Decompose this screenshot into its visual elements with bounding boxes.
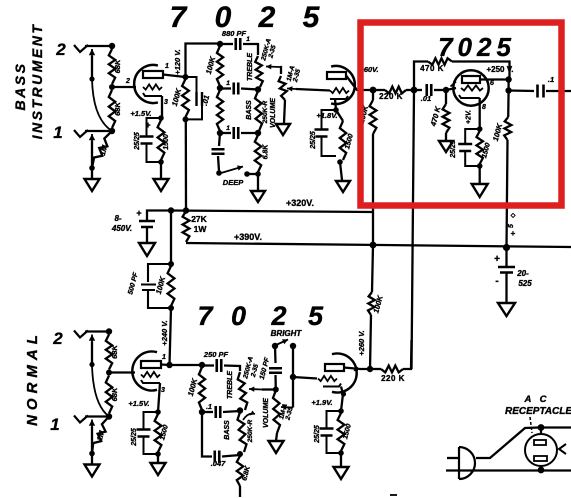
node sleeve N	[89, 362, 94, 367]
label 2-35 treble bass	[267, 44, 277, 60]
label 100K mid	[154, 275, 167, 295]
svg-text:0: 0	[215, 1, 232, 34]
capacitor 150PF	[269, 368, 282, 373]
svg-text:2: 2	[125, 78, 130, 85]
svg-text:TREBLE: TREBLE	[247, 53, 254, 81]
wire 450V cap top	[147, 211, 171, 222]
svg-text:BASS: BASS	[246, 100, 253, 120]
svg-text:8-: 8-	[114, 214, 121, 223]
svg-text:25/25: 25/25	[314, 425, 321, 444]
capacitor 25/25 V3	[458, 129, 480, 166]
wire vol wiper normal	[292, 377, 294, 408]
plate V1a	[143, 71, 163, 78]
node treble bottom bass	[255, 86, 261, 92]
node 500pf bottom	[168, 305, 174, 311]
node cathode V2b mid	[341, 391, 346, 396]
resistor 470K grid	[443, 104, 450, 133]
label +120V	[173, 49, 182, 74]
node bus B	[183, 207, 189, 213]
potentiometer BASS bass	[255, 91, 262, 131]
minus 20-525	[495, 276, 498, 287]
wire jack N1 down	[91, 427, 93, 454]
resistor 68K Bb	[109, 90, 115, 128]
label title top 5	[303, 1, 321, 34]
grid V2a	[141, 372, 160, 377]
wire sleeve B	[91, 56, 93, 79]
label 250K-A bass	[260, 38, 273, 63]
node jack B1	[109, 128, 115, 134]
cathode V2a	[141, 380, 160, 383]
wire cathode gnd V1b	[340, 162, 342, 180]
label +1.8V V1b	[316, 111, 337, 120]
potentiometer TREBLE normal	[238, 372, 248, 410]
node 390 right	[503, 244, 510, 251]
resistor 100K stack bass lower	[217, 90, 223, 131]
svg-text:7025: 7025	[438, 32, 516, 62]
svg-text:BASS: BASS	[12, 62, 28, 111]
svg-text:-: -	[495, 276, 498, 287]
wire mid column upper	[170, 211, 172, 265]
node cathode bottom V1b	[337, 159, 343, 165]
wire jack B1 down	[91, 141, 93, 168]
pin 2 V1a	[125, 78, 130, 85]
label .1 output	[548, 75, 554, 84]
jack N2	[74, 331, 88, 338]
label title bottom 2	[270, 301, 286, 331]
svg-text:6.8K: 6.8K	[263, 144, 270, 160]
label INSTRUMENT	[29, 23, 45, 140]
wire 6.8K gnd	[257, 174, 259, 190]
capacitor .01 bass	[197, 92, 203, 106]
wiper TREBLE bass	[266, 64, 280, 69]
svg-text:+: +	[145, 120, 150, 130]
wire receptacle top right	[541, 426, 571, 428]
wire volume wiper out	[296, 89, 330, 91]
node grid mix	[411, 87, 418, 94]
label .01 bass	[200, 94, 211, 106]
wire plate V1a	[163, 75, 185, 78]
wire grid bass V1	[112, 86, 136, 88]
svg-text:+1.9V.: +1.9V.	[311, 398, 332, 407]
svg-text:+: +	[494, 254, 500, 265]
ground cathode V2b	[334, 467, 349, 479]
label 250 PF	[203, 350, 229, 359]
wire 220K normal lead	[370, 368, 381, 370]
wire grid mix to cap	[414, 89, 422, 91]
pin 6 V3	[490, 80, 494, 87]
node treble bottom normal	[237, 407, 243, 413]
node cathode bottom V2b	[338, 450, 344, 456]
label 68K Ba	[113, 59, 122, 73]
wire jack B2 to node	[85, 45, 112, 47]
ground tone bass	[251, 191, 265, 202]
svg-text:1: 1	[226, 80, 230, 87]
wire 150pf down	[274, 375, 277, 390]
label 450V	[111, 224, 132, 233]
capacitor 25/25 V2b	[320, 411, 342, 453]
grid V1a	[143, 84, 162, 89]
label NORMAL	[24, 330, 41, 426]
capacitor 25/25 V1a	[140, 118, 162, 162]
svg-text:NORMAL: NORMAL	[24, 330, 41, 426]
node cathode V3	[477, 126, 483, 132]
resistor 100K stack normal	[199, 367, 205, 410]
svg-text:1W: 1W	[194, 224, 208, 234]
plus 450V cap	[136, 208, 141, 218]
svg-text:◇: ◇	[510, 212, 516, 219]
node 500pf top	[168, 261, 174, 267]
svg-text:25/25: 25/25	[310, 131, 317, 150]
resistor 100K mid	[168, 266, 175, 306]
wire 470K gnd	[445, 133, 447, 141]
wire to ground B	[91, 168, 93, 179]
wire ac diagonal	[476, 428, 538, 459]
resistor 1M B	[92, 131, 112, 168]
wire 470K grid lead	[445, 90, 447, 104]
wire jack N1 to node	[85, 415, 109, 417]
svg-text:+390V.: +390V.	[234, 232, 262, 242]
capacitor treble-bass bass	[234, 83, 239, 95]
wire col below	[372, 245, 373, 292]
triode V2a (7025 normal)	[132, 352, 157, 391]
wire .01 right	[186, 106, 203, 119]
label 1500 V1b	[344, 133, 355, 150]
wire treble wiper to vol	[280, 67, 281, 74]
jack N1 tip contact	[89, 420, 95, 431]
node grid V2b	[290, 374, 296, 380]
label 220 K normal	[381, 374, 405, 383]
resistor 100K col upper	[370, 100, 377, 134]
label 6.8K bass	[263, 144, 270, 160]
svg-text:.1: .1	[206, 404, 212, 411]
label 100K stack bass	[204, 55, 217, 75]
resistor 100K plate V1a	[182, 79, 189, 117]
cathode V1b	[330, 96, 348, 99]
switch BRIGHT	[276, 339, 288, 345]
wire cathode V1b down	[335, 99, 336, 110]
svg-text:+1.8V.: +1.8V.	[316, 111, 337, 120]
node cathode V1a	[158, 115, 164, 121]
svg-text:INSTRUMENT: INSTRUMENT	[29, 23, 45, 140]
label 1M-A bass	[286, 65, 297, 82]
potentiometer BASS normal	[238, 412, 247, 452]
node bass pot bottom	[255, 130, 261, 136]
wire +320 bus	[171, 211, 373, 213]
svg-text:7: 7	[197, 301, 214, 331]
ground cathode V2a	[151, 463, 166, 475]
svg-text:220 K: 220 K	[379, 92, 403, 101]
svg-text:27K: 27K	[191, 214, 207, 224]
wiper TREBLE normal	[249, 387, 262, 392]
label A C	[523, 394, 549, 405]
wire deep drop	[219, 133, 220, 146]
node sleeve B	[89, 76, 94, 81]
resistor 220K bass	[385, 87, 406, 94]
label TREBLE normal	[227, 371, 234, 399]
resistor 68K Na	[106, 335, 112, 370]
label +250V	[486, 65, 513, 74]
node bright left	[272, 343, 278, 349]
node output	[505, 87, 511, 93]
node below plate V1a	[183, 116, 189, 122]
node deep sw left	[216, 170, 222, 176]
capacitor 25/25 V2a	[137, 412, 159, 454]
jack B1	[74, 130, 88, 137]
svg-text:2: 2	[52, 329, 63, 348]
label 100K col lower	[371, 294, 384, 314]
label .047	[211, 459, 226, 468]
plate V3	[462, 76, 480, 83]
plug	[459, 447, 475, 479]
svg-text:.1: .1	[548, 75, 554, 84]
wire V3 column down	[507, 140, 508, 248]
wire sleeve N	[91, 342, 93, 365]
node 1M bottom B	[89, 165, 95, 171]
node jack B2	[109, 43, 115, 49]
jack N2 tip contact	[89, 335, 95, 346]
svg-text:+: +	[511, 229, 516, 238]
svg-text:.047: .047	[211, 459, 226, 468]
svg-text:0: 0	[231, 301, 246, 331]
resistor 6.8K bass	[255, 135, 261, 172]
node jack N1	[106, 413, 112, 419]
pin 1 tick V3	[451, 82, 457, 87]
wire sleeve curve N	[92, 365, 109, 417]
label jack N2	[52, 329, 63, 348]
label small marks2	[508, 224, 515, 228]
wire output right	[546, 90, 571, 92]
label 250K-R bass	[262, 100, 269, 124]
plus 25/25 V1a	[145, 120, 150, 130]
label 1M-A normal	[278, 403, 289, 420]
svg-text:+2V.: +2V.	[466, 110, 473, 124]
pin 3 V2a	[161, 387, 165, 394]
node bright right	[290, 343, 296, 349]
label .01 red	[421, 94, 431, 103]
label 25/25 V2a	[131, 428, 138, 447]
wire plug prong top	[447, 457, 459, 459]
svg-text:1: 1	[53, 123, 62, 142]
resistor 68K Ba	[109, 49, 115, 84]
svg-text:1: 1	[226, 125, 230, 132]
label small marks3	[510, 212, 516, 219]
wire 1500 V1b lead	[336, 110, 343, 121]
label 1500 V2b	[342, 423, 353, 440]
label +2V V3	[466, 110, 473, 124]
node deep sw right	[244, 171, 250, 177]
label 68K Na	[110, 345, 119, 359]
triode V1a (7025 bass)	[134, 65, 158, 103]
svg-text:68K: 68K	[113, 102, 122, 116]
label 1M N	[95, 429, 107, 442]
pin mark mid cap bass	[226, 80, 230, 87]
label 27K	[191, 214, 207, 224]
resistor 100K plate V3	[504, 117, 511, 140]
wiper VOLUME normal	[281, 405, 293, 410]
svg-text:2: 2	[55, 40, 66, 59]
label +60V	[359, 65, 378, 74]
wire plate to output node	[507, 80, 509, 91]
label +260V normal	[357, 330, 366, 355]
plate V2b	[325, 364, 344, 371]
wire grid V3	[446, 88, 456, 90]
ground input N	[85, 465, 100, 477]
receptacle circle	[525, 434, 557, 466]
wire mid cap left N	[202, 411, 213, 413]
label 2-35 treble normal	[250, 363, 260, 379]
wire bright right down	[292, 346, 294, 377]
resistor 220K normal	[381, 366, 403, 373]
label title bottom 5	[308, 301, 324, 331]
wire mid cap right	[241, 89, 258, 90]
label 470 K feedback	[420, 64, 444, 73]
label TREBLE bass	[247, 53, 254, 81]
svg-text:BASS: BASS	[224, 420, 231, 440]
ground 470K	[439, 141, 453, 152]
label 100K plate V3	[491, 122, 504, 142]
label BASS pot bass	[246, 100, 253, 120]
wire mid cap right N	[223, 411, 240, 412]
svg-text:TREBLE: TREBLE	[227, 371, 234, 399]
label DEEP	[223, 178, 244, 187]
wire mix column	[412, 90, 415, 369]
resistor 6.8K normal	[237, 456, 243, 486]
grid V2b	[318, 376, 337, 381]
node volume top normal	[273, 387, 279, 393]
label title top 2	[258, 1, 276, 34]
wire 220K bass lead	[374, 89, 385, 91]
svg-text:68K: 68K	[113, 59, 122, 73]
wire cathode V3 down	[479, 98, 481, 129]
label 25/25 V1a	[134, 132, 141, 151]
svg-text:1: 1	[246, 36, 250, 43]
resistor 1500 V1b	[340, 121, 346, 160]
capacitor 880PF	[236, 38, 241, 50]
label +320V	[286, 198, 314, 208]
label BRIGHT	[271, 329, 303, 338]
pin 1 V1a	[165, 63, 169, 70]
capacitor treble-bass normal	[216, 406, 221, 418]
svg-text:450V.: 450V.	[111, 224, 132, 233]
svg-text:5: 5	[508, 224, 515, 228]
ground 20-525	[498, 303, 515, 316]
label +1.5V V1a	[130, 109, 151, 118]
svg-text:25/25: 25/25	[450, 140, 457, 159]
resistor 1M N	[92, 417, 109, 454]
wire node down to bus	[185, 119, 187, 210]
label 470 K grid	[428, 105, 442, 128]
wire sleeve curve B	[92, 79, 112, 131]
wire bright left down	[274, 346, 277, 363]
resistor 1500 V3	[477, 131, 483, 164]
wire plate V2a out	[170, 364, 202, 366]
node 250pf	[199, 362, 205, 368]
svg-text:25/25: 25/25	[131, 428, 138, 447]
wire plate V1a up	[186, 44, 220, 78]
wire treble wiper normal	[262, 388, 276, 390]
wire col upper lead	[372, 90, 374, 100]
grid V3 element	[461, 85, 483, 90]
red highlight box	[361, 23, 562, 206]
capacitor 250PF	[217, 359, 222, 372]
node jack N2	[106, 328, 112, 334]
resistor 1500 V1a	[158, 120, 165, 160]
label 25/25 V3	[450, 140, 457, 159]
label 1W	[194, 224, 208, 234]
wiper VOLUME bass	[287, 86, 296, 91]
capacitor DEEP	[212, 149, 225, 154]
wire 450V cap gnd	[146, 228, 148, 243]
node receptacle bottom	[538, 467, 545, 474]
resistor 1500 V2a	[155, 414, 162, 452]
label 2-35 vol bass	[292, 68, 302, 84]
resistor 100K stack bass	[217, 46, 223, 86]
node plate V3	[505, 76, 511, 82]
svg-text:+120 V.: +120 V.	[173, 49, 182, 74]
label VOLUME bass	[270, 98, 277, 128]
jack B2 tip contact	[89, 49, 95, 60]
leader dashed	[530, 417, 532, 433]
svg-text:1: 1	[50, 415, 59, 434]
label jack N1	[50, 415, 59, 434]
capacitor 20-525	[498, 267, 515, 273]
label 2-35 vol normal	[284, 406, 294, 422]
svg-text:68K: 68K	[110, 387, 119, 401]
wire deep to 6.8K	[247, 173, 258, 175]
wire cathode V1a down	[161, 96, 163, 118]
label 25/25 V2b	[314, 425, 321, 444]
label 250K-R normal	[247, 419, 254, 443]
node 6.8K bottom	[255, 171, 261, 177]
grid V1b	[330, 88, 349, 93]
potentiometer TREBLE bass	[255, 56, 263, 87]
pin 4 V2b	[353, 367, 358, 374]
svg-text:250K-R: 250K-R	[262, 100, 269, 124]
capacitor 500PF	[141, 264, 171, 308]
wire mid cap left	[220, 87, 231, 89]
label +240V	[160, 320, 169, 345]
wire receptacle top stub	[540, 428, 542, 435]
wire .01 left	[186, 77, 197, 92]
wire low cap right	[241, 132, 258, 134]
receptacle slot top	[534, 440, 546, 445]
wire .047 right	[222, 455, 240, 457]
svg-text:1: 1	[165, 63, 169, 70]
label .1 normal	[206, 404, 212, 411]
ground cathode V1a	[154, 179, 169, 191]
triode V3 (7025)	[453, 70, 488, 105]
wire plate V3	[480, 78, 509, 80]
pin 3 V1a	[164, 99, 168, 106]
node cathode bottom V2a	[155, 451, 161, 457]
potentiometer VOLUME normal	[273, 390, 280, 433]
jack N1	[74, 416, 88, 423]
wire output	[509, 89, 534, 92]
label jack B1	[53, 123, 62, 142]
node cathode V1b	[333, 107, 339, 113]
label 6.8K normal	[241, 465, 252, 482]
capacitor 8-450V	[139, 221, 155, 227]
label 100K col upper	[357, 104, 370, 124]
svg-text:.01: .01	[421, 94, 431, 103]
wire to ground N	[91, 454, 93, 465]
svg-text:250K-R: 250K-R	[247, 419, 254, 443]
wire 880pf to treble	[243, 44, 258, 55]
wire cap to grid	[434, 89, 445, 91]
wire 100K V3 lead	[507, 91, 510, 118]
node plate V1a	[183, 74, 189, 80]
node 1M bottom N	[89, 451, 95, 457]
